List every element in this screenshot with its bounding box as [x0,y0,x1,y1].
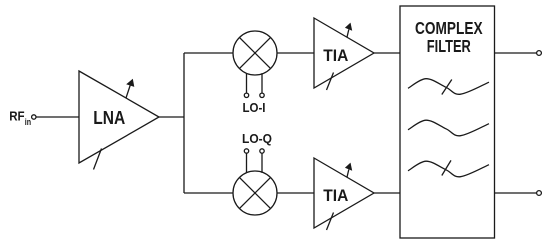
svg-text:FILTER: FILTER [427,36,471,56]
LO-I terminal stubs [246,74,248,96]
LO-I terminals [244,93,248,97]
amplifier TIA2 [314,158,374,230]
wire filter to output Q [495,192,537,194]
LNA slash [94,149,102,170]
LO-Q terminals [244,149,248,153]
node RFin label [9,110,31,128]
TIA1 gain arrow [347,30,349,38]
wire branch to mixer Q [184,192,233,194]
wire filter to output I [495,52,537,54]
svg-text:TIA: TIA [323,186,348,205]
filter wave 2 [408,120,489,136]
svg-text:LO-I: LO-I [243,100,266,115]
svg-text:in: in [25,117,31,127]
filter wave 1 [408,79,489,95]
filter wave 3 [408,161,489,177]
wire RFin to LNA [36,116,79,118]
output terminal Q [537,191,542,196]
LO-Q terminal stubs [246,151,248,173]
svg-text:LO-Q: LO-Q [242,131,272,146]
mixer Q [233,171,277,215]
input terminal RFin [32,115,36,119]
svg-text:LNA: LNA [93,107,125,128]
amplifier TIA1 [314,18,374,90]
wire mixer Q to TIA2 [277,192,314,194]
wire LNA to branch junction [159,116,184,118]
filter wave 3 slash [442,160,451,175]
amplifier LNA [79,71,159,170]
LNA gain arrow [126,85,130,98]
svg-text:TIA: TIA [323,46,348,65]
TIA2 gain arrow [347,170,349,178]
output terminal I [537,51,542,56]
wire TIA1 to filter [374,52,400,54]
mixer I [233,31,277,75]
label COMPLEX FILTER [415,18,483,56]
branch junction vertical wire [183,53,185,193]
wire mixer I to TIA1 [277,52,314,54]
svg-text:RF: RF [9,110,25,124]
filter wave 1 slash [442,80,452,95]
TIA2 slash [327,213,334,231]
complex filter box [400,6,495,238]
wire TIA2 to filter [374,192,400,194]
TIA1 slash [327,73,334,91]
wire branch to mixer I [184,52,233,54]
